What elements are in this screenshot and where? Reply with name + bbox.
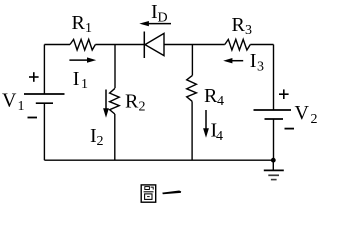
current arrow I3 bbox=[223, 58, 243, 63]
diode D cathode bar bbox=[143, 32, 145, 59]
label I1 bbox=[73, 68, 88, 92]
svg-text:4: 4 bbox=[216, 129, 223, 144]
resistor R2 bbox=[110, 88, 120, 114]
svg-text:2: 2 bbox=[311, 112, 318, 127]
minus sign V2 bbox=[285, 128, 295, 130]
svg-text:V: V bbox=[295, 102, 310, 124]
label R1 bbox=[72, 12, 93, 36]
node junction dot bbox=[271, 158, 276, 163]
label I2 bbox=[90, 125, 104, 149]
label R2 bbox=[125, 90, 146, 114]
current arrow I2 bbox=[103, 90, 109, 118]
svg-text:2: 2 bbox=[97, 134, 104, 149]
diode D triangle bbox=[145, 33, 164, 55]
wire R4 branch top bbox=[191, 45, 193, 76]
svg-text:3: 3 bbox=[245, 23, 252, 38]
label ID bbox=[151, 1, 168, 25]
svg-text:3: 3 bbox=[257, 60, 264, 75]
caption character 圖 bbox=[141, 185, 156, 202]
label I4 bbox=[211, 120, 224, 145]
wire diode to R3 bbox=[164, 44, 225, 46]
svg-text:D: D bbox=[158, 11, 168, 26]
svg-text:I: I bbox=[73, 68, 80, 90]
svg-text:R: R bbox=[204, 85, 218, 107]
label V2 bbox=[295, 102, 318, 127]
wire R2 branch top bbox=[114, 45, 116, 89]
svg-text:R: R bbox=[72, 12, 86, 34]
label R3 bbox=[232, 14, 253, 38]
svg-text:R: R bbox=[232, 14, 246, 36]
resistor R3 bbox=[225, 39, 251, 50]
svg-text:1: 1 bbox=[18, 99, 25, 114]
current arrow I1 bbox=[69, 57, 96, 62]
svg-text:I: I bbox=[250, 50, 257, 72]
resistor R1 bbox=[70, 39, 95, 50]
battery V1 plates bbox=[24, 94, 65, 103]
wire R4 branch bottom bbox=[191, 101, 193, 160]
ground bbox=[264, 170, 284, 179]
wire V2 to bottom bbox=[273, 119, 275, 160]
svg-text:V: V bbox=[2, 90, 17, 112]
svg-text:1: 1 bbox=[85, 21, 92, 36]
plus sign V1 bbox=[29, 72, 39, 82]
current arrow ID bbox=[139, 21, 171, 26]
svg-text:2: 2 bbox=[139, 100, 146, 115]
svg-text:4: 4 bbox=[217, 94, 224, 109]
minus sign V1 bbox=[28, 117, 38, 119]
battery V2 plates bbox=[254, 110, 292, 119]
wire top-left horizontal bbox=[44, 44, 70, 46]
ground stem bbox=[272, 160, 274, 170]
plus sign V2 bbox=[279, 89, 289, 99]
wire bottom horizontal bbox=[44, 159, 273, 161]
current arrow I4 bbox=[203, 110, 209, 138]
label V1 bbox=[2, 90, 25, 115]
wire right vertical upper bbox=[273, 45, 275, 111]
wire left vertical lower bbox=[43, 103, 45, 160]
label R4 bbox=[204, 85, 224, 109]
caption character 一 bbox=[162, 191, 181, 195]
wire left vertical upper bbox=[43, 45, 45, 95]
svg-text:1: 1 bbox=[81, 77, 88, 92]
resistor R4 bbox=[187, 75, 197, 101]
svg-text:R: R bbox=[125, 90, 139, 112]
wire R2 branch bottom bbox=[114, 114, 116, 160]
label I3 bbox=[250, 50, 264, 75]
wire R3 to top-right corner bbox=[250, 44, 273, 46]
wire R1 to diode bbox=[95, 44, 144, 46]
